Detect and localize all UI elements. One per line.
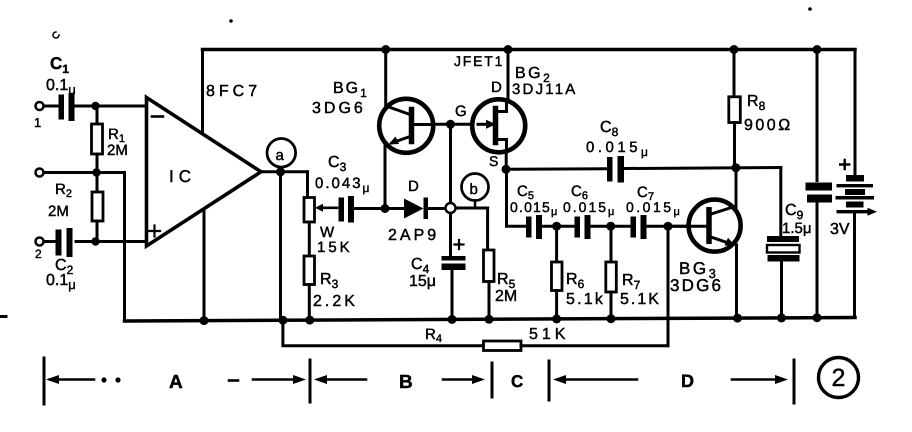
dimension arrow B right: [443, 378, 480, 381]
svg-text:b: b: [470, 181, 478, 198]
node junction rail R3: [305, 316, 314, 325]
node junction top rail BG2: [504, 45, 513, 54]
svg-text:2M: 2M: [48, 203, 69, 220]
svg-text:3DJ11A: 3DJ11A: [512, 81, 577, 98]
terminal 3 input wire: [43, 240, 54, 243]
node junction C1/R1: [91, 102, 99, 110]
svg-text:D: D: [491, 79, 502, 96]
potentiometer W wiper arrow: [320, 207, 337, 210]
svg-text:C: C: [511, 372, 523, 391]
resistor R3: [304, 256, 315, 320]
svg-text:3DG6: 3DG6: [312, 100, 366, 117]
svg-text:JFET1: JFET1: [454, 53, 504, 69]
node junction C6/C7: [606, 222, 615, 231]
wire op-amp lower edge drop: [203, 212, 206, 321]
svg-text:2AP9: 2AP9: [388, 227, 439, 244]
dimension arrow D right: [732, 378, 783, 381]
capacitor C7: [631, 215, 689, 239]
dimension tick 1: [43, 358, 46, 404]
dimension arrow D left: [558, 378, 637, 381]
svg-text:1: 1: [34, 115, 41, 130]
node junction C5/C6: [552, 222, 561, 231]
node b circle: [462, 174, 489, 201]
resistor R1: [92, 106, 103, 173]
capacitor C6: [575, 215, 630, 239]
node junction R2/C2: [91, 237, 99, 245]
svg-text:1.5μ: 1.5μ: [782, 220, 812, 237]
svg-text:2.2K: 2.2K: [313, 293, 358, 310]
node junction C7/R4/BG3 base: [664, 222, 673, 231]
resistor R4 feedback loop: [283, 226, 668, 350]
node junction rail C4: [448, 315, 457, 324]
resistor R8: [729, 50, 741, 168]
label battery polarity: [840, 160, 849, 169]
svg-text:A: A: [169, 372, 183, 393]
svg-text:2: 2: [35, 247, 42, 261]
transistor BG1: [379, 50, 433, 153]
node junction output: [276, 167, 285, 176]
svg-text:a: a: [276, 147, 285, 164]
dimension arrow A left: [50, 378, 94, 381]
node junction C3/diode/BG1 emitter: [381, 204, 390, 213]
wire rail drop to op-amp top edge: [201, 50, 204, 132]
dimension arrow A right: [253, 378, 301, 381]
node junction BG2 source S: [502, 165, 511, 174]
wire right edge battery branch upper: [854, 50, 857, 176]
wire gate link: [433, 123, 474, 126]
transistor BG2 JFET: [472, 50, 525, 170]
wire right edge battery branch lower: [853, 213, 856, 317]
capacitor C3: [339, 196, 384, 223]
node open junction C4: [446, 203, 456, 213]
wire ground drop from terminal 2: [123, 173, 126, 322]
svg-text:2M: 2M: [495, 288, 517, 305]
terminal 3 circle: [36, 238, 44, 246]
svg-text:G: G: [455, 103, 467, 120]
svg-text:IC: IC: [169, 167, 196, 186]
svg-text:15K: 15K: [317, 239, 353, 256]
node junction gate: [446, 120, 455, 129]
svg-text:D: D: [681, 371, 694, 391]
svg-text:5.1K: 5.1K: [620, 291, 661, 308]
speck top left: [229, 19, 233, 23]
node junction rail R6: [552, 314, 561, 323]
node junction rail R5: [485, 315, 494, 324]
battery 3V: [836, 175, 878, 216]
wire top supply rail: [203, 48, 856, 52]
svg-text:3V: 3V: [830, 221, 850, 238]
dimension arrow B left: [319, 378, 366, 381]
terminal 1 circle: [36, 102, 44, 110]
transistor BG3: [668, 168, 741, 318]
svg-text:D: D: [408, 178, 419, 195]
dimension tick 5: [793, 360, 796, 403]
resistor R2: [92, 173, 103, 242]
resistor R7: [606, 226, 617, 319]
capacitor C9 electrolytic: [767, 168, 800, 318]
dimension tick 4: [548, 361, 551, 400]
op-amp non-inverting input mark: [149, 226, 160, 237]
node junction rail R7: [607, 314, 616, 323]
wire C8 line: [506, 167, 608, 171]
svg-text:3DG6: 3DG6: [670, 276, 723, 295]
svg-text:8FC7: 8FC7: [206, 83, 261, 100]
svg-text:5.1k: 5.1k: [566, 291, 605, 308]
wire output drop to ground rail: [279, 172, 282, 320]
resistor R6: [552, 226, 563, 319]
wire BG1 emitter drop: [384, 145, 387, 209]
node junction rail C9: [777, 313, 786, 322]
node junction R1/R2: [92, 168, 100, 176]
op-amp inverting input mark: [152, 115, 163, 118]
node junction top rail BG1: [381, 45, 390, 54]
potentiometer W: [304, 172, 315, 256]
dimension dash: [229, 379, 238, 382]
speck left edge dash: [0, 315, 6, 318]
svg-text:S: S: [489, 153, 498, 169]
svg-text:2M: 2M: [107, 142, 128, 159]
figure number circle 2: [819, 358, 859, 398]
terminal 2 input wire: [43, 171, 125, 174]
wire diode to R5: [456, 207, 488, 210]
speck left margin: [53, 32, 59, 38]
wire op-amp output: [261, 170, 308, 173]
capacitor C4: [442, 213, 466, 319]
svg-text:900Ω: 900Ω: [744, 117, 793, 134]
speck top right: [808, 7, 812, 11]
op-amp U1 triangle: [147, 98, 262, 247]
node junction rail bypass cap: [813, 313, 822, 322]
capacitor bypass on mid line: [806, 50, 833, 318]
svg-text:2: 2: [832, 364, 846, 392]
node junction rail drop at op-amp lower: [200, 316, 209, 325]
wire gate drop to diode line: [449, 124, 452, 203]
node a circle: [267, 139, 296, 168]
capacitor C8: [607, 156, 624, 183]
dimension tick 3: [491, 363, 494, 397]
terminal 1 input wire: [43, 105, 57, 108]
node junction top rail R8: [730, 45, 739, 54]
svg-text:51K: 51K: [529, 326, 569, 343]
node junction R8/C8/C9: [731, 163, 740, 172]
svg-text:B: B: [399, 372, 413, 393]
label C4 polarity: [455, 240, 464, 249]
wire S drop to C5 line: [507, 169, 526, 226]
node junction top rail bypass: [813, 45, 822, 54]
node junction rail BG3 emitter: [733, 314, 742, 323]
capacitor C1: [59, 93, 75, 121]
diode D 2AP9: [385, 198, 445, 220]
node junction rail output drop: [278, 316, 287, 325]
svg-text:15μ: 15μ: [409, 273, 436, 290]
capacitor C5: [526, 215, 574, 239]
resistor R5: [484, 208, 495, 319]
dimension tick 2: [309, 360, 312, 402]
wire bottom ground rail: [125, 318, 856, 322]
capacitor C2: [56, 228, 73, 257]
terminal 2 circle: [36, 169, 44, 177]
